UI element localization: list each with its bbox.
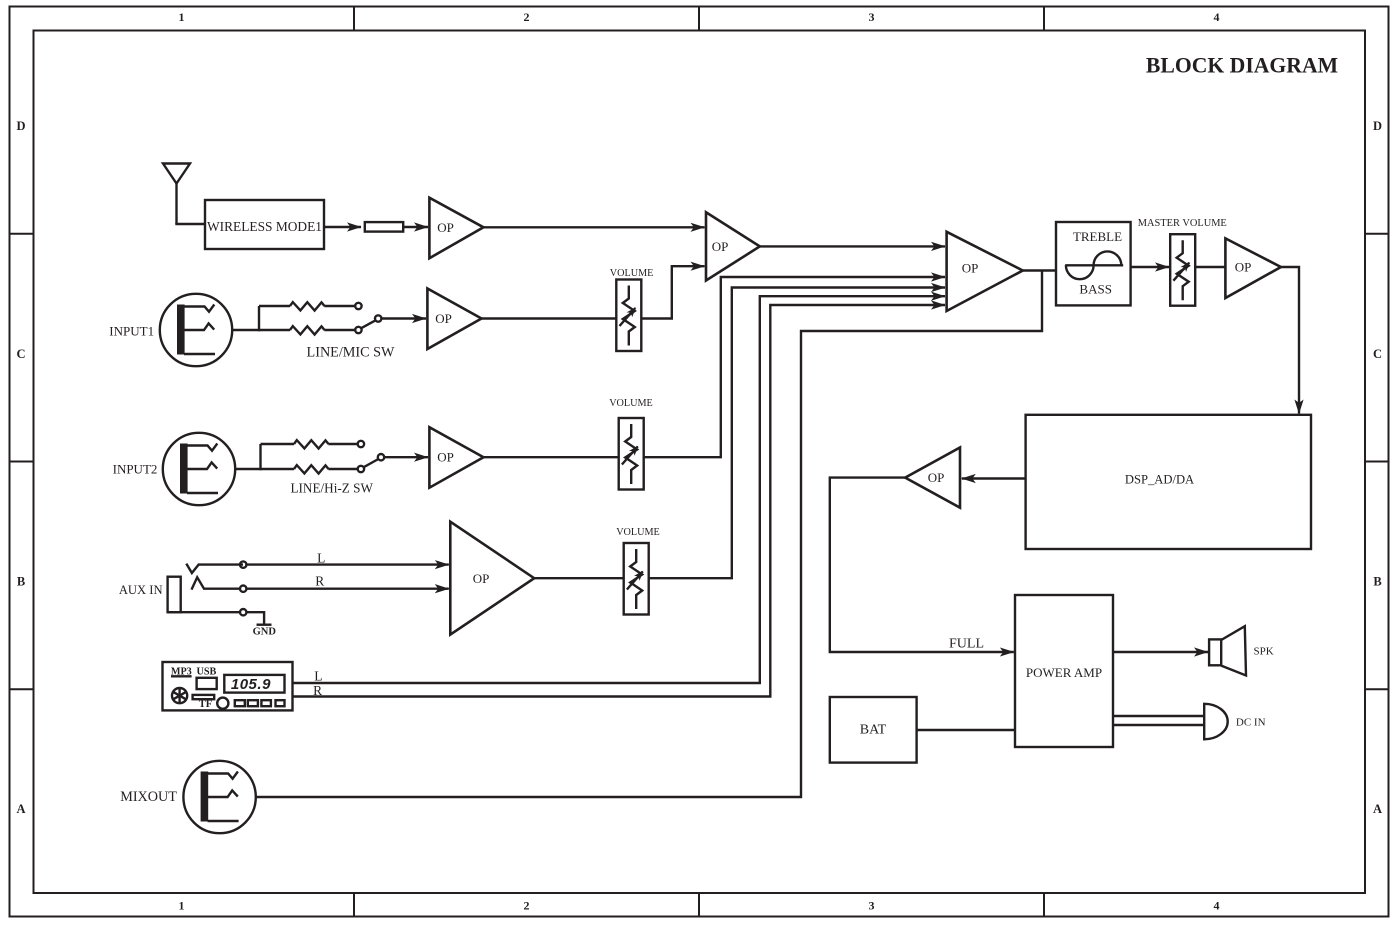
wire branch to resistor R1 bbox=[259, 305, 290, 307]
potentiometer RV2 bbox=[619, 418, 644, 490]
op-amp U7 (master) bbox=[1225, 238, 1281, 298]
resistor R2 (mic path) bbox=[290, 326, 325, 334]
resistor R4 (hi-z path) bbox=[294, 465, 329, 473]
contact circle top (line) bbox=[355, 303, 361, 309]
op-amp U4 (aux) bbox=[450, 522, 534, 635]
wire aux L to op-amp U4 bbox=[246, 563, 448, 565]
wire U5 to main mixer U6 bbox=[760, 245, 945, 247]
wire R1 to contact bbox=[324, 305, 355, 307]
svg-text:BASS: BASS bbox=[1079, 282, 1112, 297]
svg-text:L: L bbox=[317, 551, 325, 566]
svg-text:VOLUME: VOLUME bbox=[610, 268, 654, 279]
svg-text:B: B bbox=[1373, 575, 1381, 589]
op-amp U1 (wireless) bbox=[429, 198, 483, 259]
svg-text:4: 4 bbox=[1214, 10, 1220, 24]
svg-text:A: A bbox=[1373, 802, 1382, 816]
switch common circle bbox=[375, 315, 381, 321]
svg-text:SPK: SPK bbox=[1254, 646, 1274, 658]
row tick left C|B bbox=[10, 461, 34, 463]
svg-text:OP: OP bbox=[435, 311, 452, 326]
svg-text:WIRELESS MODE1: WIRELESS MODE1 bbox=[207, 219, 322, 234]
wire treble/bass to master volume bbox=[1131, 266, 1169, 268]
wire BAT to power amp bbox=[917, 729, 1015, 731]
jack J3 ring contact (R) bbox=[192, 577, 241, 589]
button rect 3 bbox=[261, 700, 271, 706]
row tick right B|A bbox=[1365, 688, 1389, 690]
svg-text:POWER AMP: POWER AMP bbox=[1026, 665, 1102, 680]
op-amp U5 (mixer1) bbox=[706, 212, 760, 280]
button rect 4 bbox=[276, 700, 285, 706]
switch blade LINE/MIC bbox=[361, 320, 375, 328]
wire RV3 to main mixer U6 bbox=[649, 288, 945, 579]
wire branch vertical bbox=[259, 444, 261, 470]
contact circle bottom (mic) bbox=[355, 327, 361, 333]
svg-text:OP: OP bbox=[437, 220, 454, 235]
row tick left D|C bbox=[10, 233, 34, 235]
svg-text:BAT: BAT bbox=[860, 723, 887, 738]
USB port rect bbox=[197, 678, 217, 689]
svg-text:DSP_AD/DA: DSP_AD/DA bbox=[1125, 473, 1194, 487]
svg-text:FULL: FULL bbox=[949, 637, 984, 652]
jack J1 INPUT1 bbox=[160, 294, 232, 366]
tone curve symbol bbox=[1065, 264, 1123, 266]
column tick bottom 1|2 bbox=[353, 893, 355, 917]
svg-text:MASTER VOLUME: MASTER VOLUME bbox=[1138, 218, 1227, 229]
svg-text:OP: OP bbox=[1235, 260, 1252, 275]
row tick left B|A bbox=[10, 688, 34, 690]
DC IN plug symbol bbox=[1204, 704, 1228, 740]
op-amp U6 (main mixer) bbox=[947, 232, 1023, 311]
svg-text:BLOCK DIAGRAM: BLOCK DIAGRAM bbox=[1146, 54, 1338, 78]
wire resistor to op-amp U1 bbox=[403, 226, 428, 228]
wire U7 to DSP bbox=[1281, 267, 1299, 414]
switch blade LINE/Hi-Z bbox=[364, 459, 379, 467]
svg-text:OP: OP bbox=[473, 571, 490, 586]
svg-text:TREBLE: TREBLE bbox=[1073, 229, 1122, 244]
svg-text:R: R bbox=[313, 683, 322, 698]
wire RV4 to op-amp U7 bbox=[1195, 266, 1225, 268]
box BAT bbox=[830, 697, 917, 763]
column tick bottom 3|4 bbox=[1043, 893, 1045, 917]
svg-text:L: L bbox=[314, 669, 322, 684]
contact circle aux R bbox=[240, 586, 246, 592]
wire switch to op-amp U3 bbox=[384, 456, 428, 458]
row tick right C|B bbox=[1365, 461, 1389, 463]
switch common circle bbox=[378, 454, 384, 460]
jack J3 sleeve line bbox=[168, 611, 240, 613]
row tick right D|C bbox=[1365, 233, 1389, 235]
contact circle top (line) bbox=[358, 441, 364, 447]
svg-text:D: D bbox=[16, 119, 25, 133]
svg-text:GND: GND bbox=[253, 627, 277, 638]
wire DSP to op-amp U8 bbox=[962, 477, 1026, 479]
svg-text:VOLUME: VOLUME bbox=[609, 398, 653, 409]
wire antenna to wireless module bbox=[177, 223, 206, 224]
button rect 1 bbox=[235, 700, 245, 706]
box DSP_AD/DA bbox=[1026, 415, 1311, 549]
svg-text:LINE/Hi-Z SW: LINE/Hi-Z SW bbox=[290, 481, 373, 496]
round button bbox=[217, 698, 228, 709]
TF card slot bbox=[193, 695, 215, 699]
dc in double wire bbox=[1113, 715, 1204, 717]
wire to ground bbox=[246, 612, 264, 624]
wire U4 to volume pot RV3 bbox=[534, 577, 624, 579]
jack J4 MIXOUT bbox=[183, 761, 255, 833]
wire branch to resistor R2 bbox=[259, 329, 290, 331]
wire MP3 R to main mixer U6 bbox=[293, 305, 946, 697]
wire power amp to speaker bbox=[1113, 651, 1208, 653]
svg-text:DC IN: DC IN bbox=[1236, 717, 1266, 729]
box WIRELESS MODE1 bbox=[205, 200, 324, 249]
resistor R1 (line path) bbox=[290, 302, 325, 310]
LCD display frame bbox=[224, 675, 284, 693]
wire U1 to mixer U5 bbox=[484, 226, 705, 228]
column tick bottom 2|3 bbox=[698, 893, 700, 917]
column tick top 1|2 bbox=[353, 7, 355, 31]
wire R2 to contact bbox=[324, 329, 355, 331]
svg-text:TF: TF bbox=[199, 699, 212, 710]
op-amp U2 (input1) bbox=[427, 289, 481, 350]
svg-text:1: 1 bbox=[179, 10, 185, 24]
svg-text:C: C bbox=[1373, 347, 1382, 361]
svg-text:USB: USB bbox=[196, 666, 216, 677]
svg-text:D: D bbox=[1373, 119, 1382, 133]
wire branch to resistor R3 bbox=[261, 443, 295, 445]
svg-text:4: 4 bbox=[1214, 899, 1220, 913]
box POWER AMP bbox=[1015, 595, 1113, 747]
op-amp U8 (feedback, points left) bbox=[905, 448, 960, 508]
MP3 module box bbox=[163, 662, 293, 710]
svg-text:INPUT1: INPUT1 bbox=[109, 324, 154, 339]
potentiometer RV1 bbox=[616, 280, 641, 352]
svg-text:OP: OP bbox=[437, 450, 454, 465]
wire aux R to op-amp U4 bbox=[246, 588, 448, 590]
box TREBLE/BASS bbox=[1056, 222, 1131, 305]
wire U8 to power amp (FULL) bbox=[830, 478, 1014, 652]
jack J3 AUX (sleeve rect) bbox=[168, 577, 181, 613]
svg-text:R: R bbox=[315, 574, 324, 589]
svg-text:OP: OP bbox=[712, 239, 729, 254]
svg-text:VOLUME: VOLUME bbox=[616, 527, 660, 538]
svg-text:MIXOUT: MIXOUT bbox=[120, 789, 177, 805]
wire U6 to treble/bass bbox=[1023, 269, 1056, 271]
wire J1 to branch node bbox=[232, 329, 260, 331]
column tick top 2|3 bbox=[698, 7, 700, 31]
svg-text:2: 2 bbox=[524, 10, 530, 24]
wire MIXOUT to mix bus tap bbox=[256, 270, 1042, 798]
svg-text:OP: OP bbox=[962, 260, 979, 275]
wire U2 to volume pot RV1 bbox=[482, 317, 617, 319]
op-amp U3 (input2) bbox=[429, 427, 483, 488]
svg-text:C: C bbox=[16, 347, 25, 361]
contact circle aux GND bbox=[240, 609, 246, 615]
wire MP3 L to main mixer U6 bbox=[293, 296, 946, 683]
speaker SPK symbol bbox=[1209, 639, 1221, 665]
wire wireless module to resistor bbox=[324, 226, 361, 228]
svg-text:LINE/MIC SW: LINE/MIC SW bbox=[307, 345, 395, 361]
svg-text:B: B bbox=[17, 575, 25, 589]
svg-text:INPUT2: INPUT2 bbox=[113, 462, 158, 477]
svg-text:1: 1 bbox=[179, 899, 185, 913]
knob wheel icon bbox=[172, 688, 187, 703]
jack J2 INPUT2 bbox=[163, 433, 235, 505]
potentiometer RV4 master bbox=[1170, 234, 1195, 306]
resistor (RF filter) bbox=[365, 222, 403, 232]
contact circle aux L bbox=[240, 561, 246, 567]
svg-text:OP: OP bbox=[928, 470, 945, 485]
svg-text:3: 3 bbox=[869, 10, 875, 24]
ground bar bbox=[257, 624, 272, 626]
wire R4 to contact bbox=[328, 468, 358, 470]
wire branch to resistor R4 bbox=[261, 468, 295, 470]
jack J3 tip contact (L) bbox=[186, 564, 243, 573]
wire U3 to volume pot RV2 bbox=[484, 456, 619, 458]
svg-text:3: 3 bbox=[869, 899, 875, 913]
wire RV2 to main mixer U6 bbox=[644, 277, 945, 457]
wire RV1 to mixer U5 second input bbox=[641, 266, 704, 318]
svg-text:2: 2 bbox=[524, 899, 530, 913]
contact circle bottom (hi-z) bbox=[358, 466, 364, 472]
svg-text:A: A bbox=[16, 802, 25, 816]
svg-text:AUX IN: AUX IN bbox=[119, 583, 163, 597]
potentiometer RV3 bbox=[624, 543, 649, 615]
button rect 2 bbox=[248, 700, 258, 706]
svg-text:105.9: 105.9 bbox=[231, 676, 271, 693]
resistor R3 (line path) bbox=[294, 440, 329, 448]
antenna bbox=[163, 164, 190, 184]
wire branch vertical bbox=[258, 306, 260, 331]
wire R3 to contact bbox=[328, 443, 358, 445]
column tick top 3|4 bbox=[1043, 7, 1045, 31]
wire J2 to branch node bbox=[235, 468, 262, 470]
wire switch to op-amp U2 bbox=[381, 317, 426, 319]
